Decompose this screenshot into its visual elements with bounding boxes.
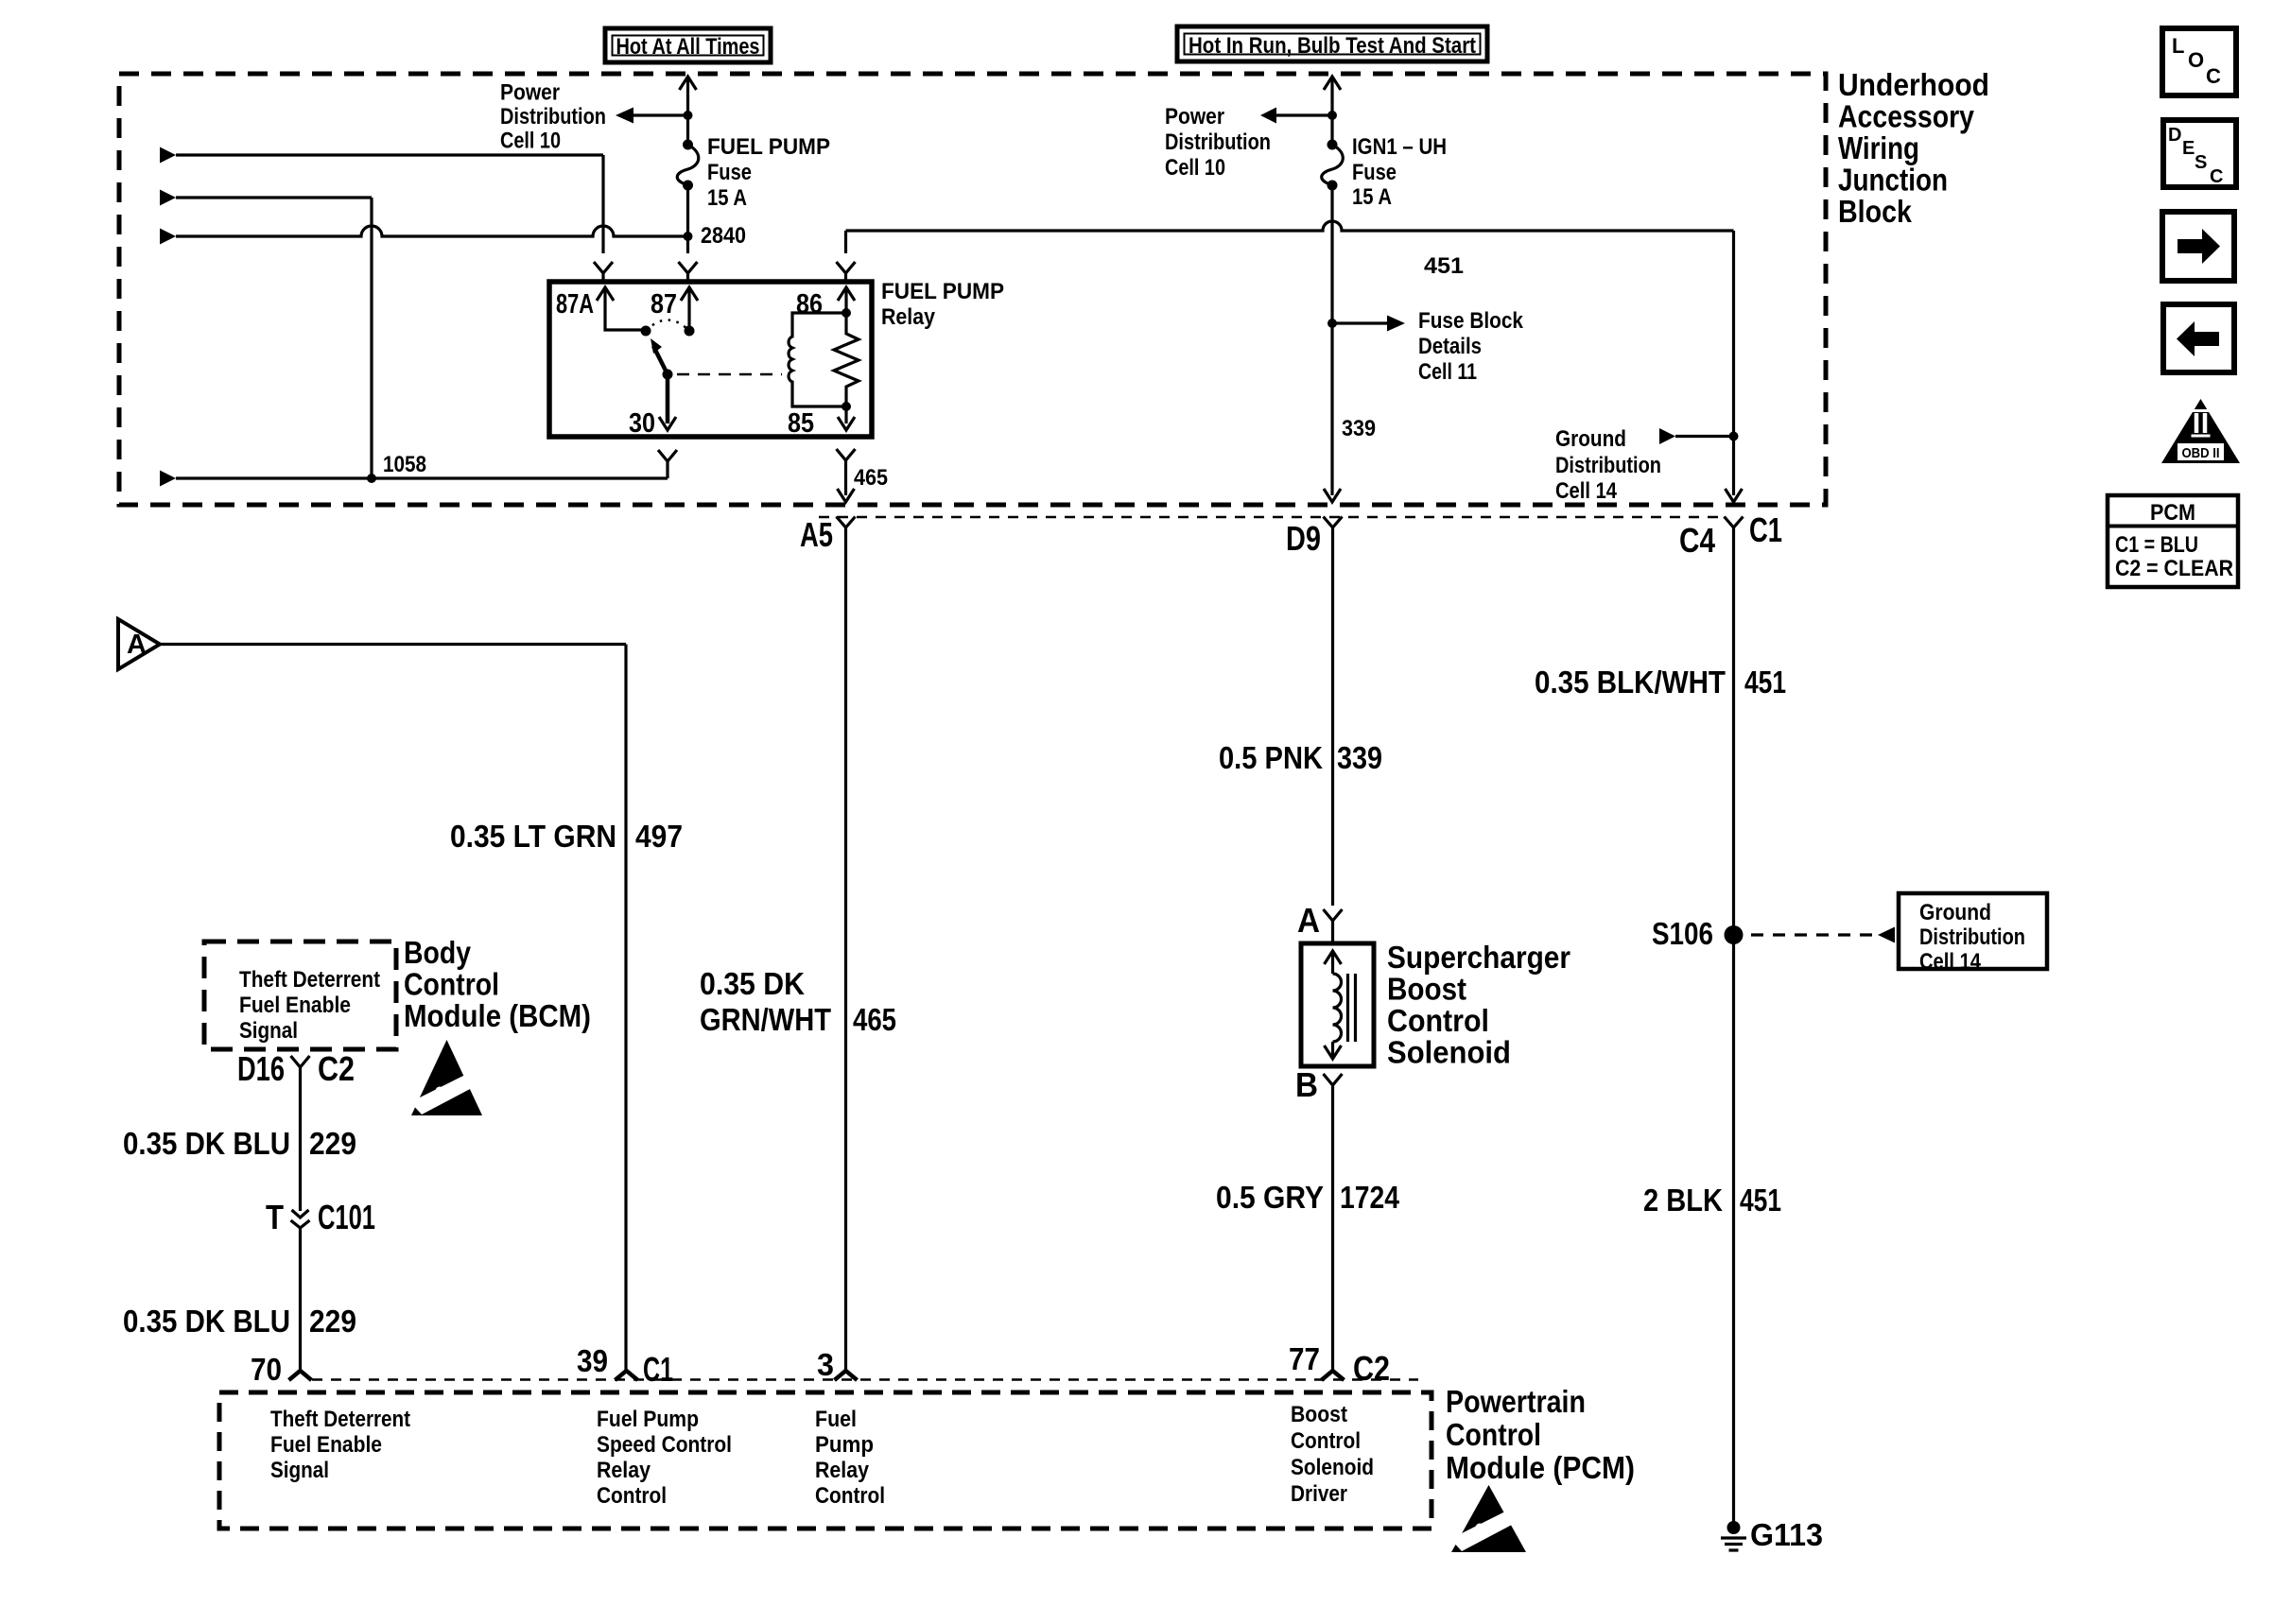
- node: ground distribution tap dot: [1729, 432, 1739, 441]
- svg-text:Block: Block: [1838, 194, 1913, 229]
- svg-text:Relay: Relay: [881, 304, 936, 330]
- svg-text:Fuel: Fuel: [815, 1407, 857, 1432]
- svg-text:Body: Body: [404, 935, 472, 970]
- svg-text:OBD II: OBD II: [2182, 445, 2220, 461]
- node: coil bottom dot: [842, 402, 851, 411]
- wire: circuit 465 to box edge with arrow: [838, 460, 855, 502]
- svg-text:E: E: [2182, 138, 2195, 159]
- wire: input arrow 4 / circuit 1058 to relay pin 30: [160, 461, 668, 487]
- svg-text:Distribution: Distribution: [1919, 924, 2025, 950]
- fuse: IGN1-UH Fuse 15 A: [1322, 140, 1344, 191]
- connector: relay pin 86 terminal: [837, 262, 856, 282]
- relay pin 87 arm: [681, 287, 698, 329]
- solenoid core lines: [1348, 974, 1356, 1042]
- svg-text:Power: Power: [500, 80, 560, 106]
- solenoid internal arrow up: [1325, 951, 1342, 974]
- label: Fuel Pump Speed Control Relay Control: [597, 1407, 732, 1509]
- connector: relay pin 30 terminal: [658, 450, 677, 461]
- svg-text:0.5 PNK: 0.5 PNK: [1219, 740, 1323, 775]
- svg-text:C2: C2: [318, 1049, 355, 1088]
- svg-text:Control: Control: [1387, 1003, 1489, 1038]
- svg-text:Speed Control: Speed Control: [597, 1432, 732, 1458]
- svg-text:77: 77: [1289, 1341, 1320, 1376]
- svg-text:S106: S106: [1652, 916, 1713, 951]
- module box: Theft Deterrent Fuel Enable Signal (dashed, BCM): [204, 942, 396, 1049]
- label: Ground Distribution Cell 14 (top right): [1555, 426, 1661, 504]
- svg-text:B: B: [1295, 1065, 1318, 1104]
- svg-text:Driver: Driver: [1291, 1481, 1347, 1507]
- label: FUEL PUMP Fuse 15 A: [707, 134, 830, 211]
- svg-text:Distribution: Distribution: [500, 104, 606, 130]
- icon: left arrow box: [2163, 304, 2234, 372]
- relay resistor (right branch): [834, 313, 859, 406]
- thin dashed connector line (PCM pin row): [312, 1378, 1418, 1381]
- svg-text:C1: C1: [1749, 510, 1782, 549]
- label: 0.35 LT GRN 497: [450, 819, 683, 854]
- node: splice S106: [1725, 925, 1744, 944]
- solenoid coil winding: [1333, 974, 1342, 1042]
- svg-text:Power: Power: [1165, 104, 1224, 130]
- label: 0.35 DK GRN/WHT 465: [700, 966, 896, 1037]
- svg-text:Fuel Enable: Fuel Enable: [270, 1432, 382, 1458]
- svg-text:0.35 LT GRN: 0.35 LT GRN: [450, 819, 616, 854]
- label: Boost Control Solenoid Driver: [1291, 1402, 1374, 1507]
- connector: relay pin 87A terminal: [594, 262, 613, 282]
- svg-text:D: D: [2168, 125, 2181, 146]
- svg-text:86: 86: [796, 289, 823, 320]
- wire: input arrow 3 (node 2840 feed with crossovers): [160, 226, 688, 245]
- module box: Powertrain Control Module (dashed): [219, 1392, 1431, 1529]
- svg-text:0.35 DK BLU: 0.35 DK BLU: [123, 1304, 290, 1339]
- ESD symbol (BCM): [410, 1040, 488, 1115]
- wire: 229 from C101 down to PCM pin 70: [299, 1228, 302, 1371]
- svg-text:Module (BCM): Module (BCM): [404, 998, 591, 1033]
- svg-text:C2 = CLEAR: C2 = CLEAR: [2115, 556, 2233, 581]
- wire: 229 from D16 down to C101: [299, 1067, 302, 1211]
- connector: D16 / C2 terminal: [291, 1056, 310, 1067]
- svg-text:87A: 87A: [556, 289, 594, 320]
- thin dashed connector line (A5/D9/C1 row): [819, 516, 1725, 519]
- label: 0.35 DK BLU 229 (lower): [123, 1304, 356, 1339]
- svg-text:497: 497: [635, 819, 683, 854]
- svg-text:Accessory: Accessory: [1838, 99, 1975, 134]
- svg-text:Theft Deterrent: Theft Deterrent: [239, 967, 380, 993]
- connector: solenoid pin A terminal: [1324, 909, 1343, 943]
- svg-text:85: 85: [788, 408, 814, 439]
- reference box: Ground Distribution Cell 14: [1899, 893, 2047, 975]
- svg-text:229: 229: [309, 1304, 356, 1339]
- module box: Underhood Accessory Wiring Junction Block (dashed): [119, 74, 1826, 505]
- connector: PCM pin 70 entry: [289, 1371, 312, 1380]
- svg-text:Wiring: Wiring: [1838, 130, 1919, 165]
- wire: 339 down to box edge with arrow: [1324, 323, 1341, 502]
- dashed actuation link to coil: [677, 373, 782, 376]
- wire: IGN1 feed up-arrow to Hot In Run flag: [1324, 77, 1341, 143]
- svg-text:Fuel Pump: Fuel Pump: [597, 1407, 699, 1432]
- label: Fuel Pump Relay Control: [815, 1407, 885, 1509]
- relay box: FUEL PUMP Relay: [549, 282, 872, 437]
- icon: right arrow box: [2162, 212, 2234, 281]
- svg-text:Junction: Junction: [1838, 163, 1948, 198]
- svg-text:A: A: [1297, 901, 1320, 940]
- svg-text:39: 39: [577, 1343, 608, 1378]
- svg-text:FUEL PUMP: FUEL PUMP: [707, 134, 830, 160]
- svg-text:C1: C1: [643, 1350, 673, 1389]
- svg-text:Underhood: Underhood: [1838, 67, 1989, 102]
- node: BAT junction dot: [684, 111, 693, 120]
- label: Theft Deterrent Fuel Enable Signal (BCM): [239, 967, 380, 1044]
- svg-text:465: 465: [853, 1002, 896, 1037]
- svg-text:Solenoid: Solenoid: [1387, 1035, 1511, 1070]
- component box: Supercharger Boost Control Solenoid: [1301, 943, 1374, 1066]
- svg-text:Fuse: Fuse: [1352, 160, 1397, 185]
- svg-text:Boost: Boost: [1387, 972, 1466, 1007]
- svg-text:0.35 BLK/WHT: 0.35 BLK/WHT: [1535, 665, 1726, 700]
- icon: DESC box: [2163, 120, 2236, 187]
- svg-text:30: 30: [629, 408, 655, 439]
- svg-text:465: 465: [854, 465, 888, 491]
- wire: arrow from Ground Distribution Cell 14 label: [1659, 428, 1734, 444]
- svg-text:0.35 DK: 0.35 DK: [700, 966, 805, 1001]
- svg-text:Hot At All Times: Hot At All Times: [616, 34, 760, 60]
- svg-text:Module (PCM): Module (PCM): [1446, 1450, 1635, 1485]
- svg-text:C4: C4: [1679, 521, 1715, 560]
- ESD symbol (PCM): [1450, 1485, 1528, 1552]
- fuse: FUEL PUMP Fuse 15 A: [677, 140, 699, 191]
- svg-text:C: C: [2206, 64, 2221, 88]
- node: blade dot: [663, 370, 673, 380]
- svg-text:Cell 10: Cell 10: [500, 129, 561, 154]
- svg-text:15 A: 15 A: [1352, 184, 1392, 210]
- svg-text:3: 3: [817, 1347, 834, 1382]
- dotted arc between 87A pivot and 87 contact: [646, 320, 689, 332]
- svg-text:Powertrain: Powertrain: [1446, 1384, 1586, 1419]
- connector: C4 / C1 terminal: [1725, 517, 1744, 528]
- label: 0.35 DK BLU 229 (upper): [123, 1126, 356, 1161]
- label: 0.35 BLK/WHT 451: [1535, 665, 1786, 700]
- connector: PCM pin 39 entry: [616, 1371, 638, 1380]
- wire: 1724 from pin B down to PCM pin 77: [1331, 1085, 1334, 1371]
- svg-text:15 A: 15 A: [707, 185, 747, 211]
- relay pin 86 arm: [838, 287, 855, 313]
- node: 87 contact dot: [685, 326, 695, 337]
- icon: LOC box: [2162, 28, 2236, 95]
- label: Power Distribution Cell 10 (left): [500, 80, 606, 154]
- svg-text:D16: D16: [237, 1049, 285, 1088]
- svg-text:L: L: [2172, 34, 2184, 58]
- svg-text:C: C: [2210, 166, 2223, 187]
- svg-text:Ground: Ground: [1919, 900, 1991, 925]
- svg-text:Supercharger: Supercharger: [1387, 940, 1570, 975]
- svg-text:451: 451: [1740, 1183, 1781, 1218]
- node: junction on 1058: [367, 474, 376, 483]
- svg-text:Pump: Pump: [815, 1432, 874, 1458]
- relay pin 87A arm: [597, 287, 644, 330]
- svg-text:D9: D9: [1286, 519, 1321, 558]
- wire: input arrow 2 (down to 1058): [160, 190, 372, 479]
- flag box: Hot At All Times: [605, 28, 771, 62]
- svg-text:IGN1 – UH: IGN1 – UH: [1352, 134, 1447, 160]
- svg-text:Control: Control: [1446, 1417, 1541, 1452]
- connector: solenoid pin B terminal: [1324, 1074, 1343, 1085]
- svg-text:O: O: [2188, 48, 2204, 72]
- connector: A triangle (off-page reference): [118, 619, 160, 669]
- wire: fuse to node 2840: [686, 185, 689, 236]
- label: IGN1 - UH Fuse 15 A: [1352, 134, 1447, 210]
- connector: C101 in-line: [291, 1210, 310, 1228]
- connector: PCM pin 77 entry: [1322, 1371, 1345, 1380]
- wire: 451 right end down to box edge with arrow: [1726, 231, 1743, 502]
- connector: relay pin 85 lower terminal: [837, 449, 856, 460]
- wire: arrow to Power Distribution Cell 10 (IGN1): [1260, 108, 1332, 124]
- svg-text:S: S: [2195, 152, 2207, 173]
- node: 2840: [684, 232, 693, 241]
- svg-text:451: 451: [1424, 253, 1464, 279]
- label: Powertrain Control Module (PCM): [1446, 1384, 1635, 1485]
- ground: G113: [1721, 1521, 1746, 1550]
- flag box: Hot In Run, Bulb Test And Start: [1177, 26, 1487, 61]
- svg-text:Fuse: Fuse: [707, 160, 752, 185]
- label: FUEL PUMP Relay: [881, 279, 1004, 330]
- label: Underhood Accessory Wiring Junction Block: [1838, 67, 1989, 229]
- label: Power Distribution Cell 10 (right): [1165, 104, 1271, 181]
- label: 0.5 GRY 1724: [1216, 1180, 1400, 1215]
- svg-text:Signal: Signal: [270, 1458, 329, 1483]
- svg-text:C101: C101: [318, 1198, 375, 1236]
- wire: 2840 down to relay pin 87 connector: [686, 236, 689, 253]
- svg-text:Solenoid: Solenoid: [1291, 1455, 1374, 1480]
- svg-text:70: 70: [251, 1352, 282, 1387]
- svg-text:Theft Deterrent: Theft Deterrent: [270, 1407, 410, 1432]
- relay pin 30 arm (arrow down): [659, 374, 676, 430]
- svg-text:Cell 10: Cell 10: [1165, 155, 1225, 181]
- relay switch blade (movable contact): [651, 338, 668, 374]
- reference box: PCM connector colors: [2108, 495, 2238, 587]
- svg-text:Distribution: Distribution: [1165, 130, 1271, 155]
- wire: input arrow 1 (to relay 87A): [160, 147, 603, 254]
- svg-text:229: 229: [309, 1126, 356, 1161]
- svg-text:Distribution: Distribution: [1555, 453, 1661, 478]
- label: Supercharger Boost Control Solenoid: [1387, 940, 1570, 1070]
- svg-text:A5: A5: [800, 515, 833, 554]
- label: 2 BLK 451: [1643, 1183, 1781, 1218]
- svg-text:Fuse Block: Fuse Block: [1418, 308, 1524, 334]
- wire: 465 from A5 down to PCM pin 3: [844, 527, 847, 1371]
- svg-text:451: 451: [1744, 665, 1786, 700]
- svg-text:Control: Control: [404, 967, 499, 1002]
- connector: PCM pin 3 entry: [835, 1371, 858, 1380]
- dashed reference to Ground Distribution Cell 14: [1751, 927, 1895, 943]
- svg-text:0.35 DK BLU: 0.35 DK BLU: [123, 1126, 290, 1161]
- svg-text:G113: G113: [1750, 1517, 1823, 1552]
- svg-text:C1 = BLU: C1 = BLU: [2115, 532, 2198, 558]
- icon: OBD II triangle: [2161, 399, 2240, 463]
- label: Theft Deterrent Fuel Enable Signal (PCM): [270, 1407, 410, 1483]
- svg-text:2840: 2840: [701, 223, 746, 249]
- svg-text:339: 339: [1337, 740, 1382, 775]
- label: Fuse Block Details Cell 11: [1418, 308, 1524, 385]
- svg-text:Hot In Run, Bulb Test And Star: Hot In Run, Bulb Test And Start: [1189, 33, 1476, 59]
- wire: arrow to Fuse Block Details Cell 11: [1332, 316, 1405, 332]
- relay coil (left branch): [789, 313, 846, 406]
- svg-text:A: A: [127, 630, 147, 660]
- svg-text:GRN/WHT: GRN/WHT: [700, 1002, 831, 1037]
- svg-text:1058: 1058: [383, 452, 426, 477]
- svg-text:Control: Control: [815, 1483, 885, 1509]
- svg-text:Cell 14: Cell 14: [1919, 949, 1982, 975]
- node: coil top dot: [842, 308, 851, 318]
- svg-text:Boost: Boost: [1291, 1402, 1347, 1427]
- label: 0.5 PNK 339: [1219, 740, 1382, 775]
- node: switch pivot dot (87A): [641, 326, 651, 337]
- svg-text:Control: Control: [1291, 1428, 1361, 1454]
- connector: D9: [1324, 517, 1343, 528]
- svg-text:Relay: Relay: [597, 1458, 651, 1483]
- svg-text:FUEL PUMP: FUEL PUMP: [881, 279, 1004, 304]
- connector: relay pin 87 terminal: [679, 262, 698, 282]
- connector: A5: [837, 517, 856, 528]
- svg-text:339: 339: [1342, 416, 1376, 441]
- svg-text:2 BLK: 2 BLK: [1643, 1183, 1723, 1218]
- svg-text:Details: Details: [1418, 334, 1482, 359]
- wire: IGN1 fuse down to D9 (circuit 339): [1330, 185, 1333, 322]
- wire: 451 left end down to relay pin 86 connector: [844, 231, 847, 253]
- svg-text:0.5 GRY: 0.5 GRY: [1216, 1180, 1324, 1215]
- svg-text:Signal: Signal: [239, 1018, 298, 1044]
- svg-text:Ground: Ground: [1555, 426, 1626, 452]
- relay pin 85 arm (arrow down): [838, 406, 855, 430]
- solenoid internal arrow down: [1325, 1042, 1342, 1059]
- svg-text:1724: 1724: [1340, 1180, 1400, 1215]
- wire: 497 from A to PCM pin 39: [160, 645, 626, 1372]
- svg-text:Control: Control: [597, 1483, 667, 1509]
- svg-text:87: 87: [651, 289, 677, 320]
- wire: circuit 451 horizontal (jumps over 339 wire): [846, 221, 1734, 231]
- svg-text:C2: C2: [1353, 1349, 1390, 1388]
- svg-text:T: T: [266, 1198, 284, 1236]
- svg-text:Relay: Relay: [815, 1458, 870, 1483]
- svg-text:Fuel Enable: Fuel Enable: [239, 993, 351, 1018]
- node: fuse block details tap dot: [1327, 319, 1337, 328]
- svg-text:PCM: PCM: [2150, 500, 2195, 526]
- wire: BAT feed up-arrow to Hot At All Times: [680, 77, 697, 143]
- wire: 451 from C1 down to G113: [1732, 527, 1735, 1522]
- node: IGN1 junction dot: [1327, 111, 1337, 120]
- svg-text:Cell 11: Cell 11: [1418, 359, 1477, 385]
- wire: arrow to Power Distribution Cell 10 (BAT): [616, 108, 688, 124]
- wire: 339 from D9 down to solenoid pin A: [1331, 527, 1334, 906]
- label: Body Control Module (BCM): [404, 935, 591, 1033]
- svg-text:Cell 14: Cell 14: [1555, 478, 1618, 504]
